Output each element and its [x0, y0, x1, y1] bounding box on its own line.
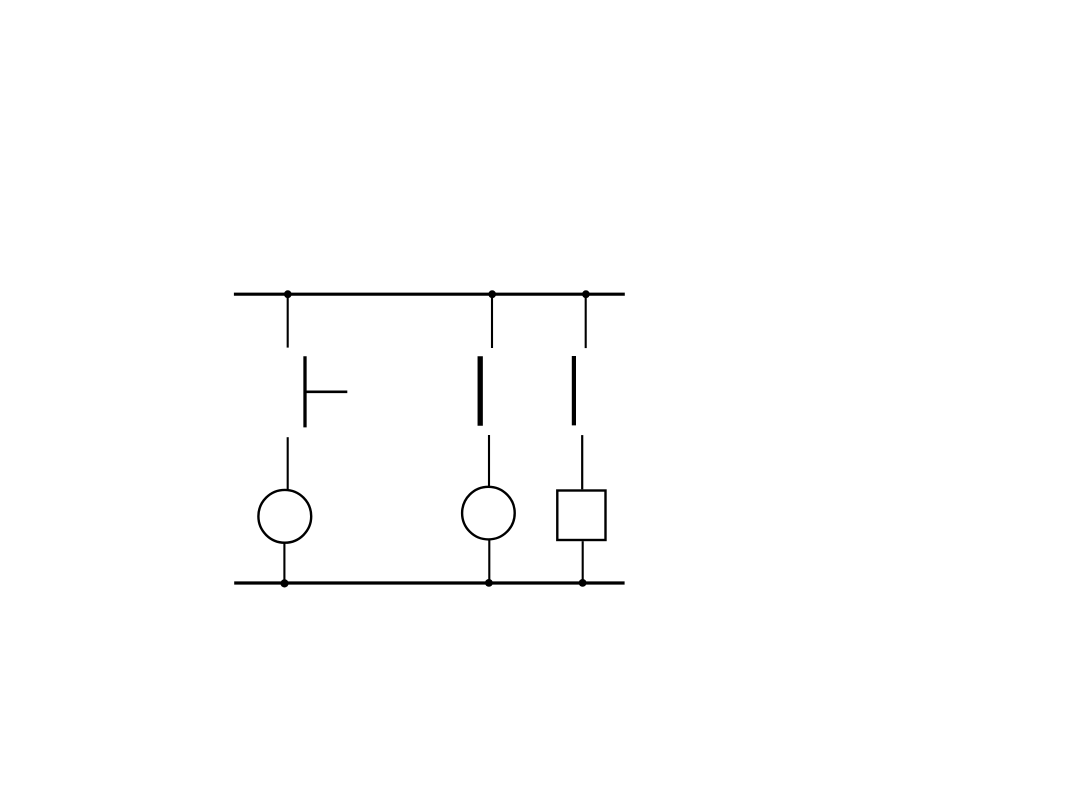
contact K2 thick bar — [572, 356, 576, 425]
wire branch1 middle segment — [287, 437, 289, 490]
node junction bottom-right — [579, 579, 587, 587]
load K3 (box) — [557, 491, 605, 541]
node junction top-right — [582, 290, 590, 298]
contact K1 thick bar — [478, 356, 483, 426]
node junction top-middle — [488, 290, 496, 298]
node junction bottom-middle — [485, 579, 493, 587]
wire branch1 upper segment — [287, 294, 289, 347]
wire branch3 lower segment — [582, 541, 584, 583]
lamp H1 (circle) — [258, 490, 311, 543]
wire top supply rail — [234, 293, 625, 296]
wire branch3 middle segment — [581, 435, 583, 489]
wire branch2 lower segment — [488, 540, 490, 584]
switch S1 contact bar — [303, 356, 306, 427]
lamp H2 (circle) — [462, 487, 515, 540]
wire branch2 middle segment — [488, 435, 490, 487]
wire branch3 upper segment — [585, 294, 587, 348]
node junction top-left — [284, 290, 292, 298]
wire branch2 upper segment — [491, 294, 493, 348]
wire branch1 lower segment — [283, 542, 285, 583]
wire bottom return rail — [234, 581, 624, 584]
switch S1 actuator arm — [305, 390, 347, 393]
node junction bottom-left — [280, 579, 288, 587]
